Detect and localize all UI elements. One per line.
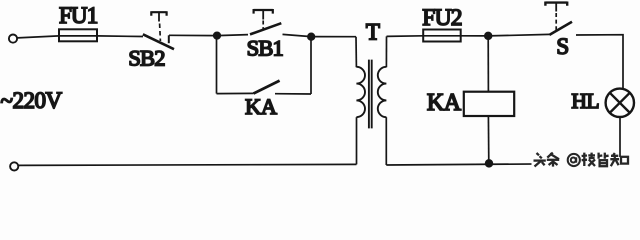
node A junction dot	[214, 32, 221, 39]
wire branch bottom left	[217, 92, 254, 94]
wire bottom rail left	[19, 164, 357, 165]
wire relay coil to bottom rail	[487, 116, 489, 163]
glyph 知	[610, 153, 628, 166]
wire secondary to FU2	[387, 35, 424, 38]
wire branch right vertical	[310, 37, 312, 94]
wire SB2 to node A	[169, 34, 217, 36]
wire node B to transformer	[311, 36, 356, 38]
svg-text:T: T	[366, 20, 380, 45]
fuse FU1	[59, 29, 97, 41]
glyph 条	[547, 153, 559, 167]
glyph 头	[534, 153, 546, 167]
terminal bottom-left	[10, 162, 18, 170]
svg-text:KA: KA	[245, 94, 278, 119]
wire through FU2	[423, 35, 461, 37]
watermark glyphs	[534, 153, 629, 167]
wire bottom rail right	[386, 163, 620, 165]
svg-text:SB1: SB1	[247, 35, 283, 60]
svg-text:S: S	[556, 34, 569, 59]
glyph 技	[582, 153, 595, 166]
pushbutton SB1 (NO) contact	[250, 9, 281, 34]
transformer T secondary winding	[378, 67, 387, 117]
svg-text:SB2: SB2	[128, 45, 165, 70]
svg-text:~220V: ~220V	[1, 88, 63, 113]
fuse FU2	[423, 30, 461, 42]
switch S	[545, 2, 572, 35]
wire lamp bottom lead	[619, 117, 621, 157]
node D junction dot	[486, 160, 493, 167]
wire SB1 to node B	[283, 34, 312, 36]
wire lamp lead over band	[619, 150, 621, 157]
svg-text:KA: KA	[427, 90, 462, 116]
node C junction dot	[485, 33, 492, 40]
svg-text:HL: HL	[571, 89, 599, 113]
relay contact KA (NO)	[254, 81, 280, 94]
wire FU2 to node C	[461, 35, 488, 37]
transformer T primary winding	[356, 67, 365, 117]
glyph @	[568, 154, 580, 166]
relay coil KA	[464, 92, 514, 116]
glyph 皆	[599, 153, 609, 167]
wire node C to relay coil	[487, 36, 489, 92]
transformer core	[369, 60, 372, 129]
wire top rail left	[18, 36, 144, 38]
wire branch left vertical	[216, 36, 218, 94]
svg-text:FU1: FU1	[59, 3, 98, 28]
terminal top-left	[9, 35, 17, 43]
wire transformer secondary top lead	[385, 36, 387, 67]
wire S to lamp	[576, 35, 623, 90]
node B junction dot	[308, 33, 315, 40]
wire transformer secondary bottom lead	[385, 117, 387, 165]
wire branch bottom right	[275, 93, 311, 95]
lamp HL	[606, 89, 634, 117]
wire transformer primary bottom lead	[356, 117, 358, 164]
wire node C to switch S	[488, 34, 549, 36]
watermark background band	[532, 150, 632, 171]
svg-text:FU2: FU2	[422, 5, 461, 31]
wire transformer primary top lead	[355, 37, 357, 67]
pushbutton SB2 (NC) contact	[143, 11, 174, 49]
wire node A to SB1	[217, 35, 248, 36]
